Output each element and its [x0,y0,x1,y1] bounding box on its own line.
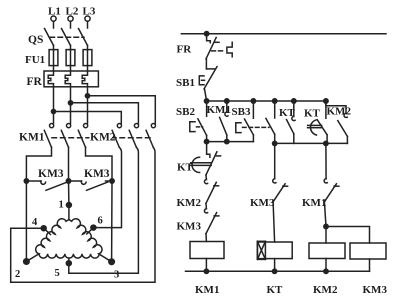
contactor KM3 aux contact lower [204,203,218,233]
junction node SB3-linked [273,99,277,103]
svg-text:2: 2 [15,269,20,280]
label KM3 coil [363,284,388,296]
svg-text:FR: FR [177,44,193,56]
wire FU1 to FR pole3 [87,66,89,71]
junction node SB2 [204,99,208,103]
junction KM3 row right [110,179,114,183]
label 1 [59,200,64,211]
motor terminal 5 [66,258,71,266]
contactor KM1 aux contact right [324,143,339,201]
label 2 [15,269,20,280]
junction segB left [273,141,277,145]
svg-text:SB3: SB3 [232,106,251,118]
label SB1 [176,77,195,89]
contactor KM2 main contact 1 [112,124,121,148]
wire node3 down to motor terminal 3 [111,181,113,262]
label KM3 middle [250,197,275,209]
svg-text:3: 3 [114,270,119,281]
FR heater element 2 [65,71,70,87]
wire KM2 pole3 to terminal 4 [11,147,155,282]
junction phase C tap [85,94,89,98]
motor terminal 3 [109,259,115,265]
svg-text:KM2: KM2 [313,284,338,296]
node L1 terminal [51,16,56,28]
label SB2 [176,106,195,118]
button SB2 NO start [190,101,207,142]
wire tap A to KM2 pole1 [54,112,122,124]
contactor KM1 main contact 1 [44,124,53,148]
label KT instantaneous [279,107,296,119]
fuse FU1 pole1 [49,50,58,66]
label KM1 aux [207,104,231,116]
switch QS pole 2 [62,29,71,46]
label 3 [114,270,119,281]
label KT coil [267,284,284,296]
wire FR to KM1 pole1 [53,87,55,123]
label KM3 bridge 1 [38,168,64,180]
svg-text:L3: L3 [83,6,96,18]
svg-text:KM2: KM2 [90,132,116,144]
junction phase A tap [51,109,55,113]
junction segA KM1 [225,139,229,143]
SB3 actuator dashed link [243,126,270,128]
svg-text:KM3: KM3 [84,168,110,180]
wire FR to SB1 [205,59,207,69]
svg-text:KM1: KM1 [207,104,231,116]
bottom segment A [207,141,254,143]
wire FU1 to FR pole2 [70,66,72,71]
wire KM1 pole3 to node 3 (jog right) [86,147,113,181]
control top bus [181,33,386,35]
KT delay symbol lower [191,157,211,172]
fuse FU1 pole3 [83,50,92,66]
svg-text:KM3: KM3 [38,168,64,180]
motor winding right side [69,219,112,262]
junction rail KM1 [204,269,208,273]
svg-text:4: 4 [32,217,38,228]
label SB3 [232,106,251,118]
svg-text:KM1: KM1 [302,197,326,209]
junction node KM1 [225,99,229,103]
thermal relay FR heater box [44,71,98,87]
svg-text:KM2: KM2 [177,197,202,209]
wire KM1 right to KM2 coil [324,202,326,227]
motor terminal 2 [24,259,30,265]
label KM2 aux [327,106,352,118]
relay KT instantaneous contact [287,101,296,143]
svg-text:KT: KT [279,107,296,119]
svg-text:L1: L1 [48,6,61,18]
label L2 [66,6,79,18]
junction top bus FR [204,32,208,36]
relay KT delayed closing contact [317,101,327,143]
svg-text:SB2: SB2 [176,106,195,118]
FR heater element 3 [82,71,87,87]
svg-text:1: 1 [59,200,64,211]
label KM1 right [302,197,326,209]
svg-text:KM3: KM3 [250,197,275,209]
junction phase B tap [68,101,72,105]
wire FU1 to FR pole1 [53,66,55,71]
coil KT [257,202,292,271]
wire SB1 to node row [205,89,207,101]
svg-text:QS: QS [28,34,43,46]
svg-text:KM3: KM3 [363,284,388,296]
wire KM1 pole1 to node 2 (jog left) [26,147,51,181]
label FR control [177,44,193,56]
motor terminal 6 [87,225,96,234]
label KM2 coil [313,284,338,296]
junction KM3 row middle [66,179,70,183]
coil KM1 [190,234,224,272]
KM1 KM2 mechanical link dashed [52,137,152,139]
motor terminal 4 [41,226,50,235]
junction rail KM2 [324,269,328,273]
switch QS pole 3 [79,29,88,46]
label KM3 bridge 2 [84,168,110,180]
KT delay symbol [308,120,322,135]
motor winding left side [26,219,69,262]
svg-text:FU1: FU1 [25,54,45,66]
svg-text:KM2: KM2 [327,106,352,118]
label KM2 main [90,130,116,144]
node L3 terminal [85,16,90,28]
wire tap B to KM2 pole2 [71,103,139,123]
contactor KM2 aux contact lower [204,175,218,203]
wire branch to KM3 coil [326,227,370,244]
wire FR to KM1 pole2 [70,87,72,123]
junction KM3 row left [24,179,28,183]
button SB3 NO [236,101,254,142]
control bottom rail [186,270,370,272]
switch QS pole 1 [45,29,54,46]
label KM1 coil [195,284,219,296]
wire KM1 pole2 to node 1 [68,147,70,181]
FR heater element 1 [48,71,53,87]
contactor KM1 main contact 2 [61,124,70,148]
wire KM2 pole1 to terminal 6 [93,147,121,227]
motor terminal 1 [66,203,71,220]
label FU1 [25,54,45,66]
fuse FU1 pole2 [66,50,75,66]
junction KM3 coil branch [324,224,328,228]
SB2 actuator dashed link [197,126,203,128]
relay KT delayed opening contact [206,142,221,175]
motor winding bottom side [39,254,99,258]
wire QS to FU1 pole1 [53,46,55,50]
svg-text:KM3: KM3 [177,221,202,233]
contactor KM2 main contact 3 [146,124,155,148]
wire QS to FU1 pole3 [87,46,89,50]
contactor KM3 bridge contact 1 [26,181,67,190]
svg-text:KT: KT [304,108,321,120]
bottom segment B [275,142,348,144]
svg-text:KT: KT [267,284,284,296]
junction node SB3 [251,99,255,103]
junction node KT1 [292,99,296,103]
relay contact FR NC [206,34,219,59]
svg-text:KT: KT [177,162,194,174]
wire node1 down to motor terminal 1 [68,181,70,205]
svg-text:L2: L2 [66,6,79,18]
svg-text:KM1: KM1 [19,132,45,144]
contactor KM3 bridge contact 2 [69,181,113,190]
junction segB right [324,141,328,145]
label 5 [55,268,60,279]
wire node2 down to motor terminal 2 [25,181,27,262]
wire FR to KM1 pole3 [87,87,89,123]
contactor KM2 aux contact [326,101,348,143]
coil KM3 [350,243,386,271]
junction node KM2-KT2 [324,99,328,103]
contactor KM1 main contact 3 [78,124,87,148]
junction rail KT [272,269,276,273]
coil KM2 [309,227,345,272]
wire QS to FU1 pole2 [70,46,72,50]
svg-text:KM1: KM1 [195,284,219,296]
label KM3 lower [177,221,202,233]
label QS [28,34,43,46]
contactor KM2 main contact 2 [129,124,138,148]
label L1 [48,6,61,18]
label KT delayed [304,108,321,120]
label 4 [32,217,38,228]
svg-text:SB1: SB1 [176,77,195,89]
node L2 terminal [68,16,73,28]
label L3 [83,6,96,18]
svg-text:5: 5 [55,268,60,279]
control node line [207,100,328,102]
label KM2 lower [177,197,202,209]
contactor KM3 aux contact middle [273,143,288,201]
label KM1 main [19,132,45,144]
label KT lower [177,162,194,174]
label 6 [98,216,103,227]
FR trip element symbol [227,42,232,56]
contactor KM1 aux contact [220,101,228,142]
button SB1 NC stop [199,67,217,89]
svg-text:6: 6 [98,216,103,227]
SB1 actuator dashed link [202,79,208,81]
FR trip dashed link [212,50,226,52]
label FR left [27,76,43,88]
wire tap C to KM2 pole3 [88,96,156,123]
svg-text:FR: FR [27,76,43,88]
junction segA SB2 [204,139,208,143]
QS mechanical link dashed [50,36,84,38]
button SB3 linked contact [266,101,275,143]
wire KM2 pole2 to terminal 5 [69,147,139,273]
